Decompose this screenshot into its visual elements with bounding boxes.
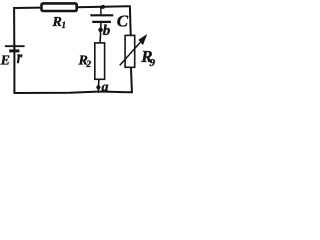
svg-text:a: a — [102, 80, 109, 95]
svg-text:2: 2 — [86, 59, 92, 69]
node (top junction) — [101, 5, 105, 9]
wire R2 to node a — [98, 79, 100, 86]
wire bottom horizontal — [14, 92, 132, 94]
wire stub cap to node b — [100, 23, 102, 28]
wire node a to bottom — [97, 89, 99, 93]
svg-text:C: C — [117, 12, 129, 31]
wire left vertical lower — [13, 47, 15, 93]
wire top-left horizontal — [14, 7, 41, 9]
svg-text:9: 9 — [150, 57, 156, 69]
battery E r — [0, 46, 25, 68]
wire left vertical upper — [13, 8, 15, 46]
wire top from R1 to right corner — [77, 6, 130, 7]
svg-text:R: R — [52, 15, 62, 30]
wire node b to R2 — [99, 32, 102, 44]
svg-text:r: r — [17, 48, 23, 67]
resistor R2 — [78, 43, 105, 79]
wire battery stem between plates — [13, 45, 15, 50]
node b — [98, 23, 111, 39]
wire below rheostat — [130, 68, 133, 92]
svg-text:1: 1 — [62, 20, 67, 30]
svg-text:b: b — [103, 23, 111, 39]
capacitor C — [90, 7, 128, 31]
resistor R1 — [42, 3, 77, 30]
rheostat R9 — [120, 34, 156, 69]
svg-text:E: E — [0, 54, 10, 69]
wire right vertical to rheostat — [129, 6, 132, 35]
node a — [96, 80, 108, 95]
